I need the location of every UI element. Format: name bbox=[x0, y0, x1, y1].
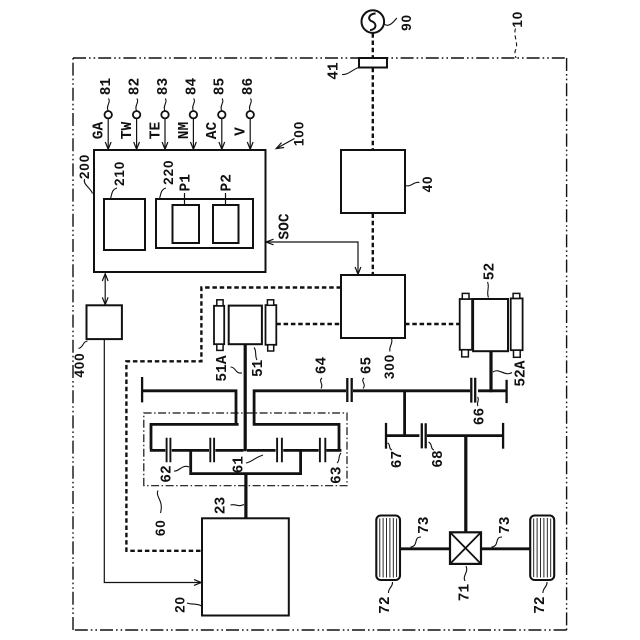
axle 73 left bbox=[400, 547, 450, 550]
gear 61 plates left bbox=[210, 438, 214, 462]
svg-text:SOC: SOC bbox=[278, 213, 294, 239]
wire: lower shaft left segment bbox=[386, 434, 419, 437]
svg-text:TW: TW bbox=[120, 122, 136, 140]
program box P1 bbox=[173, 205, 200, 243]
gearbox 60 dashed frame with axis line bbox=[144, 413, 347, 486]
svg-text:220: 220 bbox=[161, 160, 176, 185]
label 220 bbox=[160, 160, 177, 199]
label 72 right bbox=[533, 582, 549, 614]
label 73 left bbox=[411, 516, 434, 547]
svg-text:52A: 52A bbox=[514, 360, 530, 386]
lower shaft end bar right bbox=[502, 423, 504, 449]
wire: vertical link to lower shaft bbox=[403, 391, 406, 436]
svg-text:90: 90 bbox=[399, 14, 414, 31]
label 66 bbox=[473, 397, 489, 425]
carrier bottom rail bbox=[189, 472, 302, 475]
shaft 51A bbox=[244, 344, 247, 451]
svg-text:62: 62 bbox=[160, 465, 176, 482]
label 10 bbox=[510, 11, 525, 58]
svg-text:84: 84 bbox=[184, 78, 200, 96]
svg-text:NM: NM bbox=[177, 122, 193, 139]
svg-text:71: 71 bbox=[458, 584, 474, 602]
svg-text:86: 86 bbox=[241, 78, 257, 95]
wire: counter shaft 64-66 bbox=[353, 389, 470, 392]
svg-text:72: 72 bbox=[378, 596, 394, 613]
svg-text:20: 20 bbox=[173, 596, 188, 613]
label 73 right bbox=[492, 516, 514, 547]
svg-text:P2: P2 bbox=[220, 174, 236, 191]
label 41 bbox=[327, 62, 359, 80]
wire: power line source to charger 41 (dashed) bbox=[372, 33, 374, 57]
wire: input shaft left segment bbox=[142, 389, 237, 423]
label 40 bbox=[406, 176, 436, 193]
svg-text:200: 200 bbox=[77, 154, 92, 179]
ECU-HMI link box 400 bbox=[87, 305, 122, 339]
label 100 with arrow bbox=[276, 121, 306, 149]
label 20 bbox=[173, 596, 202, 613]
label P1 bbox=[179, 174, 195, 205]
shaft 52A bbox=[489, 351, 492, 392]
wire: 400 to engine 20 arrow bbox=[104, 340, 201, 586]
coupling 68 plates bbox=[422, 423, 426, 448]
wire: power line 40 to PCU 300 (dashed) bbox=[372, 214, 374, 275]
wheel 72 left bbox=[376, 516, 400, 581]
motor-generator 51 bbox=[214, 300, 276, 351]
wire: dashed line 300 to motor 52 bbox=[405, 323, 460, 325]
label 62 bbox=[160, 465, 190, 482]
engine box 20 bbox=[202, 518, 289, 615]
svg-text:P1: P1 bbox=[179, 174, 195, 192]
wire: power line 41 to 40 (dashed) bbox=[372, 68, 374, 150]
label 64 bbox=[315, 357, 331, 389]
svg-text:63: 63 bbox=[330, 467, 346, 484]
sensor 83 TE bbox=[148, 78, 172, 150]
svg-text:68: 68 bbox=[431, 450, 447, 467]
svg-text:100: 100 bbox=[292, 121, 307, 146]
sensor 85 AC bbox=[205, 78, 229, 150]
label 65 bbox=[360, 357, 376, 389]
svg-text:66: 66 bbox=[473, 408, 489, 425]
sensor 84 NM bbox=[177, 78, 201, 150]
differential 71 bbox=[450, 532, 481, 564]
battery 40 bbox=[341, 150, 405, 213]
ring gear rail left bbox=[150, 423, 239, 449]
sensor 86 V bbox=[234, 78, 258, 150]
label 61 bbox=[232, 455, 263, 473]
label 52 bbox=[483, 263, 499, 298]
label 67 bbox=[388, 443, 407, 468]
label 200 bbox=[77, 154, 93, 194]
svg-text:400: 400 bbox=[72, 352, 87, 377]
svg-text:GA: GA bbox=[92, 122, 108, 140]
gear 63 plates bbox=[320, 438, 325, 462]
label 400 bbox=[72, 341, 87, 378]
svg-text:65: 65 bbox=[360, 357, 376, 374]
program box P2 bbox=[213, 205, 239, 243]
sensor 81 GA bbox=[92, 78, 116, 150]
wire: input shaft right segment bbox=[253, 389, 346, 423]
label 51A bbox=[215, 355, 242, 381]
coupling 65 plates bbox=[347, 378, 351, 402]
coupling 66 plates bbox=[471, 378, 475, 403]
carrier jog right bbox=[299, 450, 302, 472]
label 63 bbox=[330, 453, 346, 484]
label 72 left bbox=[378, 582, 394, 614]
label 68 bbox=[429, 442, 447, 468]
label 71 bbox=[458, 566, 474, 601]
memory box 210 bbox=[104, 199, 145, 250]
gear 61 plates right bbox=[277, 438, 282, 462]
svg-text:72: 72 bbox=[533, 596, 549, 613]
svg-text:61: 61 bbox=[232, 456, 248, 474]
svg-text:64: 64 bbox=[315, 357, 331, 375]
svg-text:TE: TE bbox=[148, 122, 164, 140]
lower shaft end bar left bbox=[385, 423, 387, 449]
label 210 bbox=[111, 161, 128, 199]
PCU box 300 bbox=[341, 275, 405, 338]
label 90 bbox=[384, 14, 414, 31]
motor-generator 52 bbox=[460, 293, 523, 357]
wire: dashed line 300 to motor 51 bbox=[276, 323, 341, 325]
svg-text:51: 51 bbox=[251, 359, 267, 377]
svg-text:23: 23 bbox=[214, 497, 230, 514]
svg-text:40: 40 bbox=[420, 176, 435, 193]
sensor 82 TW bbox=[120, 78, 144, 150]
shaft end bar right bbox=[505, 380, 507, 403]
ECU box 200 bbox=[94, 150, 266, 272]
svg-text:73: 73 bbox=[417, 516, 433, 533]
svg-text:85: 85 bbox=[213, 78, 229, 95]
sun gear line left bbox=[150, 449, 244, 452]
svg-text:51A: 51A bbox=[215, 355, 231, 381]
wire: dashed control path 300 to engine 20 bbox=[126, 288, 341, 551]
label P2 bbox=[220, 174, 236, 205]
SOC signal line 300 to 200 bbox=[266, 239, 361, 274]
propeller shaft to differential bbox=[464, 436, 467, 533]
svg-text:83: 83 bbox=[156, 78, 172, 95]
sun gear line right bbox=[247, 449, 341, 452]
svg-text:81: 81 bbox=[99, 78, 115, 96]
svg-text:210: 210 bbox=[112, 161, 127, 186]
label 23 bbox=[214, 497, 245, 514]
carrier jog left bbox=[189, 450, 192, 472]
svg-text:300: 300 bbox=[382, 354, 397, 379]
ring gear rail right bbox=[253, 423, 341, 449]
wire: lower shaft right segment bbox=[427, 434, 502, 437]
svg-text:67: 67 bbox=[390, 451, 406, 468]
label 51 bbox=[251, 348, 267, 378]
svg-text:82: 82 bbox=[128, 78, 144, 95]
label 300 bbox=[382, 339, 397, 380]
AC power source 90 bbox=[362, 10, 385, 33]
processor box 220 bbox=[156, 199, 253, 248]
svg-text:AC: AC bbox=[205, 122, 221, 140]
charger 41 bbox=[359, 58, 387, 68]
svg-text:V: V bbox=[234, 127, 250, 136]
label 52A bbox=[493, 360, 530, 386]
wire: double arrow 200-400 bbox=[102, 274, 108, 305]
svg-text:41: 41 bbox=[327, 62, 343, 80]
svg-text:10: 10 bbox=[510, 11, 525, 28]
label 60 bbox=[153, 491, 168, 537]
gear 62 plates bbox=[167, 438, 171, 462]
svg-text:73: 73 bbox=[498, 516, 514, 533]
axle 73 right bbox=[481, 547, 530, 550]
wheel 72 right bbox=[530, 516, 554, 581]
wire: shaft 66 to end bar bbox=[478, 389, 506, 392]
svg-text:60: 60 bbox=[153, 519, 168, 536]
svg-text:52: 52 bbox=[483, 263, 499, 280]
output shaft 23 bbox=[244, 474, 247, 519]
shaft end bar left bbox=[141, 377, 143, 402]
frame border 10 (phantom dash-dot-dot) bbox=[73, 58, 567, 630]
